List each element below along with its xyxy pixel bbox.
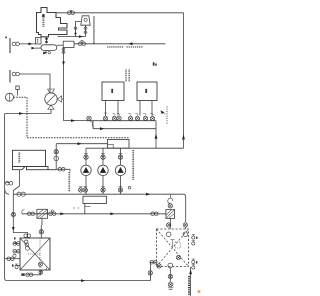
diamond valve on left leg <box>74 27 77 31</box>
arrow left on y128.7 <box>100 127 104 130</box>
valve PV1 <box>84 154 88 160</box>
valve HS2v <box>168 204 172 208</box>
valve M7 <box>143 113 147 120</box>
valve M8 <box>150 113 154 120</box>
valve PBd1 <box>168 274 172 278</box>
left inlet row y258.7 <box>5 254 20 260</box>
arrow right <box>28 43 32 46</box>
flag F3 left mid <box>9 70 11 83</box>
engine label text <box>42 14 44 17</box>
hook under M1 <box>90 122 94 128</box>
valve into box left <box>150 261 157 265</box>
ladder label vertical <box>188 276 190 295</box>
wire riser x170.3 to purifier <box>169 218 171 229</box>
arrow right on y120.6 <box>71 119 75 122</box>
wire 3way bottom to line y113.5 <box>50 109 52 113</box>
oil tank T1 <box>13 150 57 169</box>
pump riser R2 <box>102 148 104 165</box>
valve M4 <box>117 113 121 120</box>
valve HV1 on header <box>17 192 25 196</box>
valve PV3 <box>118 154 122 160</box>
wire right vertical return <box>183 13 185 148</box>
wire below box x170.3 <box>169 268 171 282</box>
engine E1 outline <box>37 8 68 37</box>
wire pot bottom leg <box>85 25 87 36</box>
SECTION6 <box>157 218 201 296</box>
wire CB1 bottom outlet <box>40 270 42 275</box>
T pair right bottom <box>192 259 198 269</box>
valve S2a <box>101 187 105 193</box>
cooler drain arrow <box>43 50 50 54</box>
tank label vertical <box>18 153 20 163</box>
MAIN CONTENT <box>5 8 185 149</box>
valve V3 (two circles) <box>12 42 19 46</box>
arrow right on y113.5 <box>19 112 23 115</box>
oil cooler C1 (elongated) <box>41 45 57 51</box>
valve PRV2 on x185.7 <box>183 223 187 227</box>
wire FT1 leg1 <box>105 101 107 116</box>
wire corner to manifold <box>64 120 87 122</box>
circle in CB1 d <box>38 262 42 266</box>
instrument circle on header <box>128 186 131 189</box>
wire header y43.8 to right <box>74 43 166 45</box>
diamond valve D2 <box>84 27 87 31</box>
wire suction line y36.6 <box>58 36 86 38</box>
circle PB in1 <box>166 232 171 237</box>
arrow right on y213.8 <box>60 212 64 215</box>
circle in CB1 c <box>25 246 29 250</box>
arrow left on y213.8 <box>110 212 114 215</box>
label Ss <box>153 62 157 65</box>
diamond valve D5 <box>45 40 48 44</box>
wire FT2 leg2 <box>151 101 153 116</box>
pump riser R1 <box>85 148 87 165</box>
label vertical between tanks <box>126 70 129 82</box>
valve M1 <box>87 116 91 120</box>
wire left vertical main <box>4 114 6 189</box>
T pair right top <box>192 235 198 246</box>
valve TL3 <box>151 212 158 216</box>
strainer rect SB1 <box>83 196 107 203</box>
valve V2 on header <box>78 40 85 45</box>
filter tank FT2 <box>137 82 157 101</box>
valve TL1 <box>27 212 34 216</box>
arrow left on suction line <box>79 35 83 38</box>
wire header drop x185.7 <box>185 197 187 223</box>
valve LV1 <box>11 212 15 216</box>
circle in CB1 b <box>25 243 29 247</box>
center mark in PB1 <box>171 240 181 249</box>
wire manifold line y120.7 <box>86 120 156 122</box>
SECTION3 <box>79 70 184 195</box>
tick bracket <box>73 207 90 208</box>
valve BV2 <box>39 230 43 234</box>
circle in CB1 a <box>24 240 28 244</box>
diamond valve D7 <box>62 51 65 55</box>
traced line vertical x27 <box>26 97 28 138</box>
label LUBE OIL PUMP vertical <box>93 17 95 45</box>
traced line horizontal y137.8 <box>27 137 129 139</box>
strainer pot S1 (trapezoid) <box>81 16 90 25</box>
wire cooler outlet left with arrow <box>31 47 41 50</box>
label under header <box>107 46 143 48</box>
arrow right on header <box>146 193 150 196</box>
arrow right on bottom line <box>81 279 85 282</box>
drain row left of outlet <box>21 273 41 277</box>
wire tank drain <box>13 170 19 195</box>
wire discharge header y148.2 <box>86 147 184 149</box>
arrow up on right edge <box>189 269 192 274</box>
pigtail left end <box>22 210 25 214</box>
pigtail above HS2 <box>168 194 173 203</box>
wire pot left leg <box>76 22 81 37</box>
circle PB in2 <box>183 232 188 237</box>
wire riser x156 <box>155 121 157 149</box>
curl at box corner <box>45 268 47 270</box>
valve PRV1 <box>167 223 171 227</box>
wire left main down to valve row <box>5 188 9 281</box>
wire suction header y194.2 <box>13 194 185 197</box>
FT1 label <box>111 89 113 93</box>
wire riser x150.5 <box>151 262 157 280</box>
filter box F1 <box>63 41 74 47</box>
valve PV2 <box>101 154 105 160</box>
wire top lube supply line <box>56 12 184 14</box>
traced line horizontal from P0 <box>14 96 28 98</box>
SECTION2 <box>5 48 129 189</box>
pump P3 <box>115 165 125 175</box>
drain symbol PBd2 <box>168 282 174 289</box>
valve pair on box inlet riser <box>24 234 31 237</box>
circle PB bottom2 <box>168 263 173 268</box>
wire to 3-way valve <box>19 74 50 93</box>
flag above P0 <box>16 86 19 96</box>
valve S1a <box>79 187 83 193</box>
diamond valve D3 <box>84 30 87 34</box>
wire right edge line to bottom <box>190 267 192 296</box>
wire manifold line2 y128.7 <box>93 128 156 130</box>
arrow up on left leg <box>74 31 77 34</box>
wire cooler to box <box>57 44 63 46</box>
dotted signal line x168 <box>161 107 168 125</box>
wire pump P3 suction <box>120 176 122 195</box>
flag F2 left top <box>9 38 11 53</box>
arrow down on x63.5 <box>62 62 65 66</box>
heater square HS2 <box>166 210 175 219</box>
purifier box PB1 (dashed) <box>157 229 189 267</box>
wire FT2 leg1 <box>139 101 141 116</box>
valve RV2 <box>58 168 65 172</box>
label pumps vertical <box>132 150 134 180</box>
valve M3 <box>112 113 116 120</box>
wire 3way right port to vertical <box>62 98 64 100</box>
SECTION5 <box>5 188 157 282</box>
left stub y265.5 <box>12 264 20 269</box>
wire pump P2 suction <box>102 176 104 195</box>
valve RV1 <box>54 150 58 154</box>
arrow left on return <box>78 142 82 145</box>
wire long bottom line y281.3 <box>7 280 150 282</box>
wire FT1 leg2 <box>117 101 119 116</box>
wire pump P1 suction <box>85 176 87 195</box>
valve PB right inner <box>176 255 180 259</box>
arrow left on header <box>128 42 133 45</box>
wire vertical x63.5 filter outlet <box>63 48 65 121</box>
valve V4 <box>12 72 19 76</box>
tick mark top left <box>5 37 7 39</box>
3-way valve TW1 <box>45 89 62 109</box>
wire riser x42.4 to box <box>40 218 43 238</box>
cooler box CB1 (crossed) <box>20 238 50 270</box>
pump P2 <box>98 165 108 175</box>
circle in pot <box>84 18 87 21</box>
pump P1 <box>81 165 91 175</box>
arrow down x13.3 <box>12 227 15 231</box>
left stub y244.5 <box>13 242 20 246</box>
label 3 marks <box>14 237 16 244</box>
wire return drop x56.2 <box>55 144 57 166</box>
wire transfer line y213.8 <box>22 213 166 215</box>
valve M6 <box>135 113 139 120</box>
valve M5 <box>128 113 132 120</box>
wire stub connecting manifolds <box>92 121 94 129</box>
left stub y251.5 <box>13 249 20 253</box>
wire from V3 to box B0 <box>19 43 36 45</box>
wire x85 down <box>84 204 86 214</box>
arrow up riser x156 <box>155 134 158 139</box>
purifier feed pump circle P0 <box>6 93 14 101</box>
pump riser R3 <box>120 148 122 165</box>
valve TL2 <box>49 210 56 216</box>
wire pipe x13.3 down <box>13 194 27 238</box>
orange dot <box>198 290 201 293</box>
valve CBo dark <box>39 270 43 274</box>
wire oil return y143.7 <box>56 143 107 145</box>
label vertical left of pump1 <box>68 172 70 192</box>
valve R150 <box>148 271 152 275</box>
heater box HB1 on header <box>108 140 130 149</box>
FT2 label <box>145 89 147 93</box>
overflow valve OV1 <box>5 182 13 186</box>
valve S3a <box>118 187 122 193</box>
filter tank FT1 <box>102 82 124 101</box>
valve S1b <box>83 187 87 193</box>
heater square HS1 <box>37 209 48 218</box>
small box B0 with S mark <box>36 38 42 45</box>
valve M2 <box>103 113 107 121</box>
arrow up on right vertical <box>182 134 185 139</box>
wire x185.7 into box <box>184 227 186 229</box>
wire tank inlet branch <box>56 166 70 172</box>
sight glass circle <box>54 156 59 161</box>
valve V1 on top line <box>67 10 74 14</box>
diamond valve D6 <box>62 48 65 52</box>
diamond valve D4 under engine stub <box>45 37 48 41</box>
wire line y113.5 <box>5 113 51 115</box>
circle PB bottom1 <box>157 264 161 268</box>
